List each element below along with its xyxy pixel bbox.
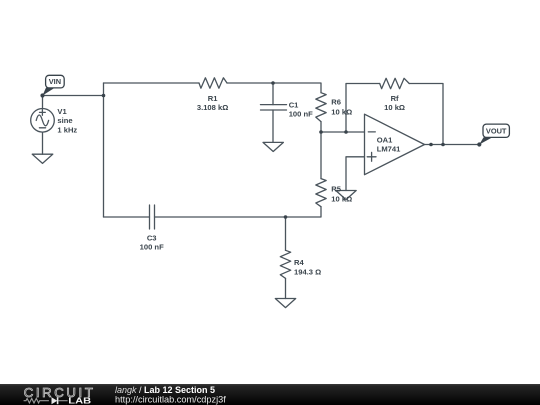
node output junction 1: [429, 143, 433, 147]
capacitor C3 plates: [149, 205, 151, 229]
wire R6 bottom lead to minus-node: [320, 122, 322, 132]
svg-text:R6: R6: [331, 98, 341, 107]
svg-text:10 kΩ: 10 kΩ: [384, 103, 405, 112]
voltage source V1 plus mark: [40, 111, 46, 113]
resistor Rf: [380, 78, 410, 88]
node VOUT terminal: [477, 142, 481, 146]
wire left vertical bus: [103, 83, 105, 217]
svg-text:10 kΩ: 10 kΩ: [331, 194, 352, 203]
ground for C1: [263, 142, 283, 151]
ground for V1: [32, 154, 53, 163]
wire bottom net left of C3: [104, 216, 150, 218]
voltage source V1 body: [31, 109, 55, 133]
svg-text:194.3 Ω: 194.3 Ω: [294, 268, 321, 277]
svg-text:C3: C3: [147, 234, 157, 243]
footer logo resistor squiggle: [24, 398, 49, 403]
resistor R6: [316, 93, 326, 122]
voltage source V1 top lead: [42, 96, 44, 109]
wire minus input net: [321, 131, 365, 133]
ground for plus input: [336, 191, 356, 200]
capacitor C1 plates: [261, 104, 287, 106]
voltage source V1 minus mark: [39, 127, 45, 129]
node VIN terminal: [40, 93, 44, 97]
wire op-amp output: [425, 144, 480, 146]
footer bar: [0, 384, 540, 405]
resistor R4: [280, 250, 290, 278]
wire R5 bottom lead to bottom net: [155, 207, 322, 217]
wire R5 top lead: [320, 132, 322, 179]
wire R1 to C1 junction: [227, 82, 273, 84]
svg-text:LAB: LAB: [68, 396, 91, 405]
wire R4 to ground: [285, 278, 287, 298]
node R6 bottom junction: [319, 130, 323, 134]
capacitor C1 top lead: [272, 83, 274, 105]
net label VOUT: [479, 124, 509, 144]
wire VIN node to left bus junction: [43, 95, 104, 97]
resistor R1: [199, 78, 227, 88]
svg-text:VIN: VIN: [49, 77, 61, 86]
op-amp minus symbol: [368, 131, 375, 133]
net label VIN: [43, 75, 65, 95]
svg-text:R1: R1: [208, 94, 218, 103]
voltage source V1 bottom lead: [42, 132, 44, 154]
svg-text:LM741: LM741: [377, 144, 401, 153]
svg-text:V1: V1: [57, 107, 67, 116]
wire C1 junction to R6 corner: [273, 83, 321, 93]
ground for R4: [275, 299, 295, 308]
svg-text:http://circuitlab.com/cdpzj3f: http://circuitlab.com/cdpzj3f: [115, 394, 226, 404]
svg-text:R5: R5: [331, 185, 341, 194]
svg-text:C1: C1: [289, 100, 299, 109]
node R4 top junction: [284, 215, 288, 219]
resistor R5: [316, 179, 326, 207]
svg-text:100 nF: 100 nF: [140, 243, 164, 252]
wire plus input to ground riser: [346, 157, 365, 191]
voltage source V1 sine wave: [36, 115, 48, 126]
svg-text:VOUT: VOUT: [486, 126, 507, 135]
svg-text:OA1: OA1: [377, 136, 393, 145]
capacitor C1 bottom lead: [272, 110, 274, 142]
node feedback junction: [344, 130, 348, 134]
node output junction 2: [441, 143, 445, 147]
svg-text:R4: R4: [294, 258, 304, 267]
svg-text:Rf: Rf: [391, 94, 399, 103]
node C1 top junction: [271, 81, 275, 85]
svg-text:10 kΩ: 10 kΩ: [331, 107, 352, 116]
wire Rf to output drop: [409, 84, 443, 145]
svg-text:1 kHz: 1 kHz: [57, 125, 77, 134]
svg-text:sine: sine: [57, 116, 72, 125]
node left bus junction: [102, 94, 106, 98]
footer logo diode: [52, 397, 58, 404]
op-amp OA1 triangle: [365, 114, 425, 175]
wire feedback riser: [346, 84, 380, 133]
op-amp plus symbol: [367, 156, 376, 158]
svg-text:3.108 kΩ: 3.108 kΩ: [197, 103, 228, 112]
svg-text:100 nF: 100 nF: [289, 109, 313, 118]
wire R4 top lead: [285, 217, 287, 250]
wire top net: bus corner to R1: [104, 82, 200, 84]
